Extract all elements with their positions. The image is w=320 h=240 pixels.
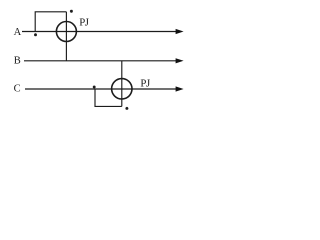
wire line A [22, 31, 177, 33]
wire current-loop of wattmeter PJ2 (down from line C, across to coil) [95, 89, 122, 106]
polarity mark * at top of PJ1 voltage coil [70, 10, 73, 13]
wire current-loop of wattmeter PJ1 (up from line A, across to coil) [35, 12, 66, 32]
svg-text:A: A [14, 27, 22, 38]
arrowhead line B [176, 58, 184, 63]
wire line B [24, 60, 177, 62]
arrowhead line A [176, 29, 184, 34]
wire voltage-coil lead of PJ2 (from line B down through meter) [121, 61, 123, 107]
svg-text:PJ: PJ [140, 77, 150, 89]
svg-text:C: C [14, 84, 21, 95]
wire line C [25, 88, 177, 90]
polarity mark * on line A terminal [34, 33, 37, 36]
wattmeter PJ1 [56, 22, 76, 42]
wire voltage-coil lead of PJ1 (vertical through meter down to line B) [65, 12, 67, 61]
arrowhead line C [176, 86, 184, 91]
svg-text:B: B [14, 56, 21, 67]
polarity mark * on line C terminal [93, 86, 96, 89]
svg-text:PJ: PJ [79, 17, 89, 29]
wattmeter PJ2 [112, 79, 132, 99]
polarity mark * at bottom of PJ2 voltage coil [125, 107, 128, 110]
